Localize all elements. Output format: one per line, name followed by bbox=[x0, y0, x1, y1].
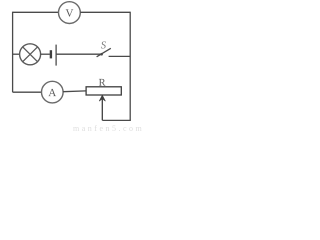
lamp L1 circle bbox=[20, 44, 41, 65]
lamp L1 cross bbox=[23, 47, 38, 62]
wire ammeter to rheostat bbox=[63, 90, 86, 93]
rheostat slider arrowhead bbox=[99, 95, 105, 101]
switch label S bbox=[101, 41, 106, 48]
svg-text:manfen5.com: manfen5.com bbox=[73, 124, 144, 132]
voltmeter label V bbox=[66, 9, 74, 16]
rheostat label R bbox=[99, 79, 106, 86]
wire top-right horizontal bbox=[80, 11, 130, 13]
rheostat slider arrow shaft bbox=[101, 98, 103, 121]
rheostat R body bbox=[86, 87, 121, 95]
wire right vertical bbox=[129, 12, 131, 121]
wire lamp to battery bbox=[41, 53, 50, 55]
wire switch to right bbox=[109, 55, 131, 57]
wire bottom to right vertical bbox=[102, 119, 131, 121]
ammeter U2 circle bbox=[42, 81, 64, 103]
switch S contact dot bbox=[100, 53, 103, 56]
wire top-left horizontal bbox=[13, 11, 59, 13]
battery BT1 short plate bbox=[50, 50, 52, 58]
wire left vertical bbox=[12, 12, 14, 93]
wire battery to switch bbox=[57, 53, 102, 55]
ammeter label A bbox=[48, 89, 56, 96]
wire bottom row left bbox=[13, 91, 42, 93]
wire middle row left bbox=[13, 53, 20, 55]
voltmeter U1 circle bbox=[59, 2, 81, 24]
battery BT1 long plate bbox=[55, 45, 57, 66]
switch S blade bbox=[97, 48, 111, 57]
